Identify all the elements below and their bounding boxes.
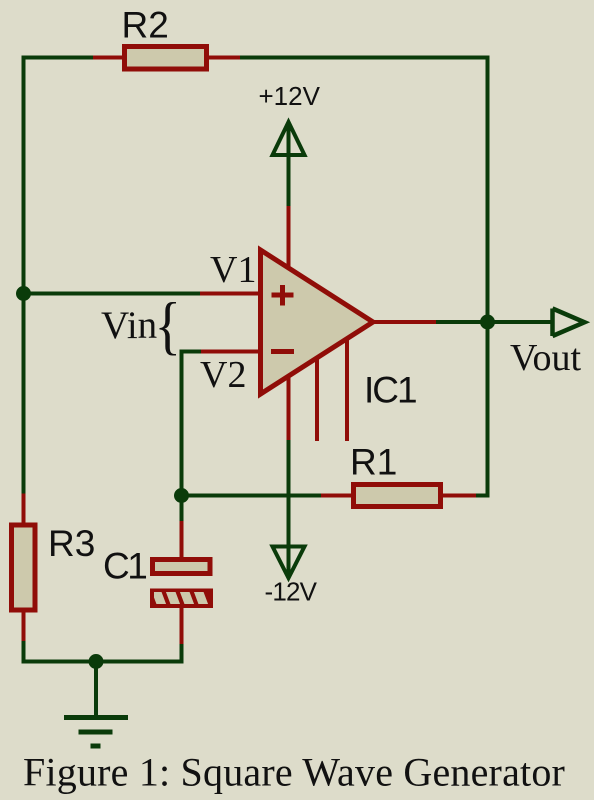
ground <box>64 662 128 747</box>
label R2 <box>122 5 169 46</box>
op-amp IC1 unconnected pins <box>317 338 347 441</box>
label -12V <box>265 577 318 607</box>
resistor R3 <box>12 525 36 610</box>
svg-text:-12V: -12V <box>265 577 318 607</box>
capacitor C1 top plate <box>153 560 211 574</box>
op-amp IC1 input pins <box>200 294 259 352</box>
resistor R2 pins <box>93 56 240 60</box>
brace for Vin <box>155 290 181 361</box>
resistor R1 pins <box>321 494 476 498</box>
resistor R3 pins <box>22 494 26 642</box>
label R1 <box>350 442 397 483</box>
svg-text:+12V: +12V <box>259 81 321 111</box>
label V1 <box>210 249 256 291</box>
svg-text:R3: R3 <box>48 523 95 564</box>
label IC1 <box>364 370 416 411</box>
wire <box>436 320 552 324</box>
node junction ground <box>89 654 104 669</box>
svg-text:Figure 1: Square Wave Generato: Figure 1: Square Wave Generator <box>23 750 565 795</box>
svg-text:IC1: IC1 <box>364 370 416 411</box>
label Vin <box>101 304 157 347</box>
svg-text:{: { <box>155 290 181 361</box>
wire <box>182 494 322 498</box>
svg-text:C1: C1 <box>103 546 146 587</box>
node junction feedback <box>174 488 189 503</box>
output terminal Vout arrow <box>553 309 585 337</box>
op-amp plus input marker <box>272 285 294 306</box>
caption Figure 1 <box>23 750 565 795</box>
wire <box>240 56 488 60</box>
svg-text:V1: V1 <box>210 249 256 291</box>
wire <box>182 352 202 522</box>
power -12V terminal <box>273 440 305 578</box>
capacitor C1 pins <box>180 521 184 644</box>
svg-text:R1: R1 <box>350 442 397 483</box>
label V2 <box>200 354 246 396</box>
resistor R2 <box>125 47 207 70</box>
wire <box>476 56 488 496</box>
svg-text:R2: R2 <box>122 5 169 46</box>
wire <box>24 56 94 60</box>
wire <box>22 56 26 494</box>
op-amp minus input marker <box>271 349 294 354</box>
label R3 <box>48 523 95 564</box>
op-amp IC1 supply pins <box>287 206 291 440</box>
wire <box>24 292 201 296</box>
label Vout <box>510 337 582 379</box>
op-amp IC1 output pin <box>374 320 436 324</box>
resistor R1 <box>354 485 441 507</box>
capacitor C1 bottom plate <box>150 589 213 609</box>
node junction A (left rail / +input) <box>16 286 31 301</box>
wire <box>24 641 182 662</box>
power +12V terminal <box>273 122 305 206</box>
svg-text:Vin: Vin <box>101 304 157 347</box>
svg-text:V2: V2 <box>200 354 246 396</box>
node junction Vout <box>480 315 495 330</box>
label C1 <box>103 546 146 587</box>
svg-text:Vout: Vout <box>510 337 582 379</box>
label +12V <box>259 81 321 111</box>
op-amp IC1 body <box>261 250 374 394</box>
